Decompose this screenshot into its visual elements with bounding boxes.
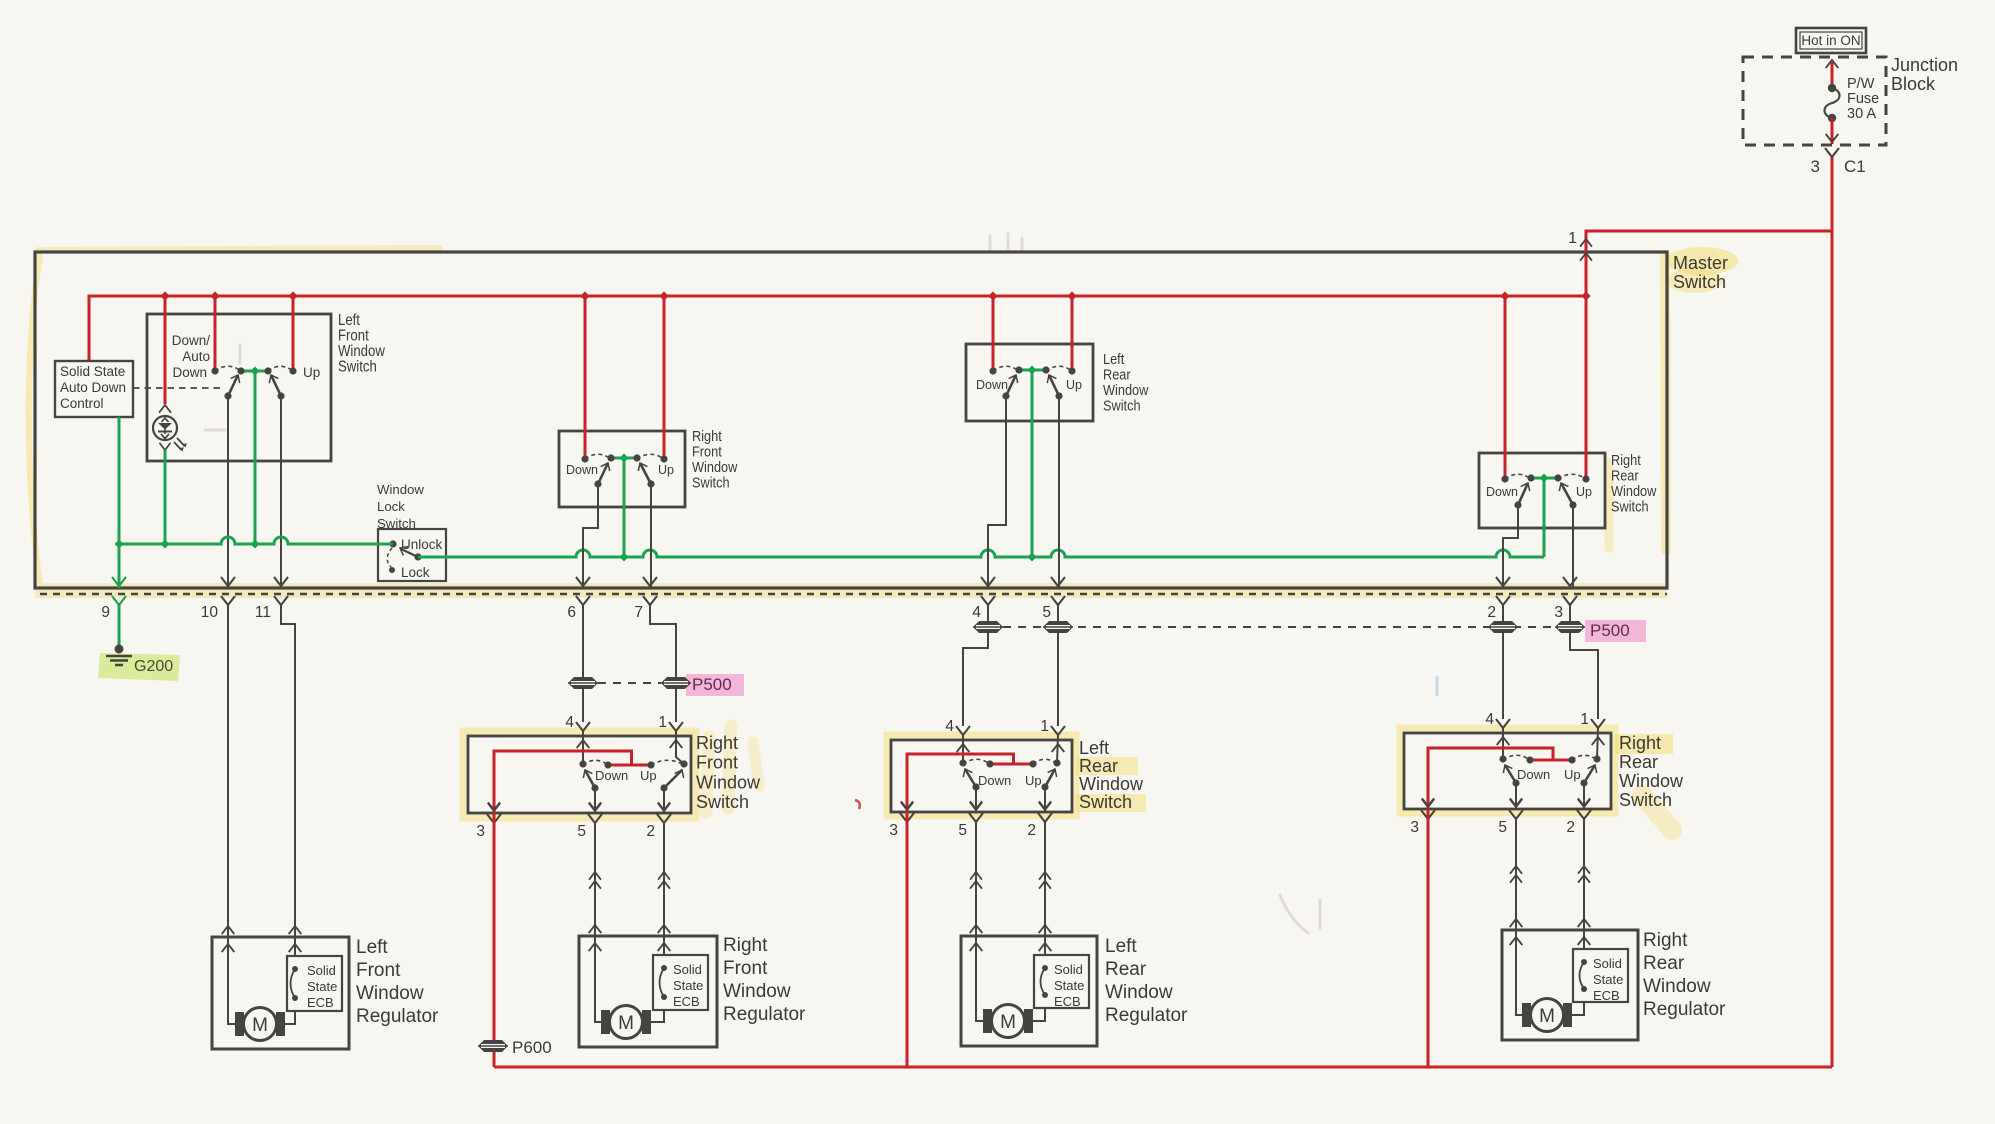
svg-text:Down: Down: [1486, 485, 1518, 499]
svg-text:Window: Window: [1105, 982, 1173, 1003]
red drop to left rear window switch S4 Up contact: [1068, 296, 1075, 375]
svg-text:3: 3: [1811, 157, 1820, 176]
red bottom feed bus: [494, 1066, 1832, 1069]
left rear window switch S4 dashed contact arcs: [993, 366, 1072, 371]
left rear window switch S4 green wire to ground bus: [1031, 370, 1034, 557]
door switch pin 2 connector: [1566, 799, 1591, 836]
svg-text:Hot in ON: Hot in ON: [1801, 33, 1860, 48]
right rear window switch S5 label: [1611, 452, 1656, 514]
wire switch pin 2 to regulator ECB (x=1045): [1039, 821, 1052, 955]
svg-text:Rear: Rear: [1643, 953, 1685, 974]
green ground bus (upper, to unlock contact): [115, 537, 394, 549]
right rear door switch S8 red feed from pin 3: [1422, 748, 1572, 809]
wire fuse to C1: [1826, 118, 1839, 144]
svg-text:Right: Right: [723, 935, 768, 956]
right front window switch S3 box: [559, 431, 685, 507]
left rear door switch S7 wire pin4 to Down contact: [962, 735, 964, 763]
door switch pin 4 connector: [565, 714, 590, 748]
left front window regulator internal wiring: [228, 937, 295, 1024]
wire P500 to right front door switch pin 1: [675, 689, 677, 722]
door switch pin 2 connector: [646, 803, 671, 840]
svg-text:11: 11: [255, 604, 271, 621]
junction block label: [1891, 55, 1958, 94]
right rear door switch S8 lever down side: [1505, 765, 1516, 783]
left rear window switch S4 lever up side: [1049, 375, 1059, 396]
door switch pin 5 connector: [958, 802, 983, 839]
svg-text:Left: Left: [1105, 936, 1137, 957]
right front window switch S3 common contacts green link: [607, 454, 640, 463]
right front door switch S6 lever down side: [585, 770, 595, 788]
dashed contact arcs: [215, 366, 293, 371]
master switch pin 5 connector: [1042, 577, 1065, 621]
left rear window regulator internal wiring: [976, 936, 1045, 1021]
svg-text:3: 3: [1410, 819, 1419, 836]
door switch pin 3 connector: [476, 803, 501, 840]
svg-text:Master: Master: [1673, 253, 1728, 273]
svg-text:State: State: [1054, 978, 1084, 993]
lock switch lever: [398, 544, 422, 561]
right rear window switch S5 lever down side: [1518, 483, 1528, 505]
red wire right front pin 3 to P600 and bus: [493, 812, 496, 1067]
right rear window switch S5 box: [1479, 453, 1605, 528]
svg-text:Rear: Rear: [1103, 367, 1131, 383]
svg-text:Right: Right: [1611, 452, 1641, 468]
wire P500 to right rear door switch pin 4: [1502, 633, 1504, 719]
right rear window regulator solid state ECB: [1573, 949, 1628, 1003]
left rear door switch S7 wire lever to pin 5: [970, 787, 982, 812]
P500 connector (wire 5): [1043, 621, 1073, 633]
svg-text:1: 1: [658, 714, 667, 731]
red feed wire C1 down right side to bottom bus: [1831, 157, 1834, 1067]
svg-text:Front: Front: [692, 444, 722, 460]
svg-text:5: 5: [577, 823, 586, 840]
door switch pin 1 connector: [1580, 711, 1605, 745]
svg-text:Rear: Rear: [1079, 756, 1118, 776]
stray red scan mark: [855, 800, 860, 809]
svg-text:4: 4: [945, 718, 954, 735]
right front window switch S3 wire to pin 6: [583, 484, 598, 588]
svg-text:Switch: Switch: [1673, 272, 1726, 292]
wire pin 4 to P500: [987, 605, 989, 621]
svg-text:ECB: ECB: [1593, 988, 1620, 1003]
svg-text:Front: Front: [723, 958, 768, 979]
svg-text:Down: Down: [566, 463, 598, 477]
master switch pin 11 connector: [255, 577, 288, 621]
right front window switch S3 dashed contact arcs: [585, 454, 664, 459]
P500 connector (wire 3): [1555, 621, 1585, 633]
svg-text:5: 5: [958, 822, 967, 839]
switch common contacts and green link: [237, 367, 271, 376]
left front window regulator label: [356, 937, 439, 1027]
master switch pin 10 connector: [201, 577, 235, 621]
red drop to right rear window switch S5 Up contact: [1582, 296, 1589, 483]
svg-text:Solid: Solid: [1593, 956, 1622, 971]
master switch label: [1673, 253, 1728, 292]
lock contact: [389, 565, 430, 580]
wire switch pin 2 to regulator ECB (x=1584): [1578, 818, 1591, 949]
svg-text:Window: Window: [723, 981, 791, 1002]
svg-text:Rear: Rear: [1611, 468, 1639, 484]
dashed lever travel arc: [387, 548, 392, 567]
svg-text:Junction: Junction: [1891, 55, 1958, 75]
switch lever down side: [228, 375, 238, 396]
svg-text:Right: Right: [692, 428, 722, 444]
right rear window switch S5 lever up side: [1561, 483, 1573, 505]
svg-text:Down: Down: [976, 378, 1008, 392]
master switch pin 4 connector: [972, 577, 995, 621]
svg-text:M: M: [618, 1013, 634, 1034]
door switch pin 4 connector: [945, 718, 970, 752]
right front window switch S3 green wire to ground bus: [623, 458, 626, 557]
svg-text:M: M: [252, 1015, 268, 1036]
svg-text:P600: P600: [512, 1038, 552, 1057]
svg-text:4: 4: [1485, 711, 1494, 728]
left rear door switch S7 wire pin1 to Up side contact: [1057, 735, 1058, 763]
left rear door switch S7 box: [891, 740, 1072, 812]
right rear door switch S8 wire pin4 to Down contact: [1502, 728, 1504, 759]
door switch pin 1 connector: [658, 714, 683, 748]
left rear door switch S7 label: [1079, 738, 1144, 812]
Down/Auto Down label: [172, 333, 211, 380]
green wire switch common to ground bus: [254, 371, 257, 544]
door switch pin 3 connector: [1410, 799, 1435, 836]
wire P500 to right rear door switch pin 1: [1570, 633, 1598, 719]
svg-text:1: 1: [1568, 230, 1577, 247]
svg-text:2: 2: [1566, 819, 1575, 836]
svg-text:ECB: ECB: [307, 995, 334, 1010]
right front door switch S6 red feed from pin 3: [488, 751, 651, 813]
wire pin 3 to P500: [1569, 605, 1571, 621]
svg-text:Regulator: Regulator: [723, 1004, 806, 1025]
left rear window switch S4 label: [1103, 351, 1148, 413]
right front window switch S3 lever up side: [640, 463, 651, 484]
svg-text:30 A: 30 A: [1847, 106, 1876, 122]
left front window switch S1 box: [147, 314, 331, 461]
left rear door switch S7 contacts: [959, 759, 1060, 767]
svg-text:Switch: Switch: [338, 359, 377, 376]
right front door switch S6 wire lever to pin 5: [589, 788, 601, 813]
fuse feed wire from Hot in ON: [1826, 60, 1839, 87]
svg-text:Right: Right: [1619, 733, 1661, 753]
right rear window switch S5 wire to pin 3: [1572, 505, 1574, 588]
green wire LED to ground bus: [164, 450, 167, 544]
svg-text:G200: G200: [134, 658, 173, 675]
svg-text:Solid: Solid: [673, 962, 702, 977]
svg-text:Window: Window: [356, 983, 424, 1004]
indicator LED D1: [153, 416, 187, 452]
right front window switch S3 wire to pin 7: [650, 484, 652, 588]
right rear window regulator box: [1502, 930, 1638, 1040]
svg-text:Switch: Switch: [1103, 398, 1141, 414]
svg-text:P500: P500: [692, 675, 732, 694]
junction block dashed box: [1743, 57, 1886, 145]
svg-text:Solid: Solid: [307, 963, 336, 978]
Hot in ON box: [1796, 28, 1866, 53]
red supply bus inside master switch: [89, 291, 1591, 361]
door switch pin 5 connector: [577, 803, 602, 840]
connector P600: [478, 1038, 552, 1057]
svg-text:State: State: [307, 979, 337, 994]
right front door switch S6 lever up side: [664, 770, 682, 788]
svg-text:3: 3: [889, 822, 898, 839]
right rear door switch S8 label: [1619, 733, 1684, 810]
svg-text:M: M: [1539, 1006, 1555, 1027]
svg-text:Auto: Auto: [182, 349, 210, 364]
svg-text:P/W: P/W: [1847, 76, 1875, 92]
svg-text:10: 10: [201, 604, 219, 621]
svg-text:Window: Window: [1619, 771, 1684, 791]
svg-text:Left: Left: [1103, 351, 1124, 367]
svg-text:Up: Up: [1576, 485, 1592, 499]
left rear window switch S4 box: [966, 344, 1093, 421]
svg-text:Regulator: Regulator: [1105, 1005, 1188, 1026]
right rear door switch S8 wire pin1 to Up side contact: [1597, 728, 1598, 759]
svg-text:1: 1: [1040, 718, 1049, 735]
svg-text:P500: P500: [1590, 621, 1630, 640]
svg-text:ECB: ECB: [673, 994, 700, 1009]
svg-text:7: 7: [634, 604, 643, 621]
dashed control link to left front switch lever: [133, 387, 225, 389]
P500 connector (wire 6): [568, 677, 598, 689]
solid state auto down control U1: [55, 361, 133, 417]
red drop to right front window switch S3 Down contact: [581, 296, 588, 463]
master switch pin 1 wire to C1 feed: [1568, 230, 1832, 296]
svg-text:Left: Left: [1079, 738, 1109, 758]
P500 dashed link 6-7: [598, 682, 661, 684]
svg-text:3: 3: [1554, 604, 1563, 621]
svg-text:M: M: [1000, 1012, 1016, 1033]
svg-text:Switch: Switch: [696, 792, 749, 812]
svg-text:Down: Down: [1517, 767, 1550, 782]
right rear window regulator internal wiring: [1516, 930, 1584, 1015]
wire pin 11 to left front regulator: [281, 605, 301, 956]
svg-text:2: 2: [646, 823, 655, 840]
right front window switch S3 label: [692, 428, 737, 490]
right rear window regulator motor M: [1522, 999, 1572, 1032]
switch lever up side: [271, 375, 281, 396]
fuse F1 P/W Fuse 30 A: [1825, 76, 1880, 122]
svg-text:Window: Window: [1079, 774, 1144, 794]
master switch pin 6 connector: [567, 577, 590, 621]
master switch pin 7 connector: [634, 577, 657, 621]
svg-text:Window: Window: [696, 772, 761, 792]
right front door switch S6 box: [468, 736, 691, 813]
right rear door switch S8 box: [1404, 733, 1611, 809]
wire pin 7 to P500: [650, 605, 676, 677]
red drop to LED: [159, 296, 171, 413]
wire P500 to right front door switch pin 4: [582, 689, 584, 722]
right rear door switch S8 wire lever to pin 2: [1578, 783, 1590, 809]
svg-text:1: 1: [1580, 711, 1589, 728]
svg-text:Block: Block: [1891, 74, 1936, 94]
svg-text:Control: Control: [60, 396, 104, 411]
unlock contact: [389, 537, 442, 552]
right front door switch S6 contacts: [579, 760, 687, 768]
master switch pin 3 connector: [1554, 577, 1577, 621]
right rear door switch S8 contacts: [1499, 755, 1600, 763]
svg-text:Up: Up: [1025, 773, 1042, 788]
svg-text:Rear: Rear: [1105, 959, 1147, 980]
red wire right rear pin 3 to bus: [1427, 808, 1430, 1067]
svg-text:Front: Front: [696, 753, 738, 773]
door switch pin 1 connector: [1040, 718, 1065, 752]
left rear window regulator label: [1105, 936, 1188, 1026]
door switch pin 2 connector: [1027, 802, 1052, 839]
svg-text:Up: Up: [1066, 378, 1082, 392]
svg-text:Switch: Switch: [692, 475, 730, 491]
svg-text:Left: Left: [356, 937, 388, 958]
svg-text:Switch: Switch: [1611, 499, 1649, 515]
ground G200: [106, 645, 173, 676]
wire P500 to left rear door switch pin 1: [1057, 633, 1059, 726]
right front door switch S6 wire pin4 to Down contact: [582, 731, 584, 764]
highlighter marks (scan): [29, 234, 1738, 933]
svg-text:Up: Up: [1564, 767, 1581, 782]
wire switch pin 5 to regulator (x=1516): [1510, 818, 1523, 945]
svg-text:5: 5: [1042, 604, 1051, 621]
right front door switch S6 label: [696, 733, 761, 812]
svg-text:Up: Up: [658, 463, 674, 477]
svg-text:Down: Down: [595, 768, 628, 783]
right rear door switch S8 dashed contact arcs: [1503, 755, 1597, 760]
green wire pin 9 to ground: [118, 605, 121, 646]
svg-text:Regulator: Regulator: [1643, 999, 1726, 1020]
master switch pin 9 connector: [101, 577, 126, 621]
window lock switch S2 box: [378, 529, 446, 581]
left rear door switch S7 red feed from pin 3: [901, 754, 1033, 812]
right front window regulator label: [723, 935, 806, 1025]
right front window regulator motor M: [601, 1006, 651, 1039]
svg-text:Up: Up: [303, 365, 320, 380]
svg-text:Switch: Switch: [1619, 790, 1672, 810]
svg-text:Down/: Down/: [172, 333, 211, 348]
wire switch pin 5 to regulator (x=976): [970, 821, 983, 951]
svg-text:Solid: Solid: [1054, 962, 1083, 977]
master switch box: [35, 252, 1667, 588]
left rear door switch S7 dashed contact arcs: [963, 759, 1057, 764]
left rear window switch S4 lever down side: [1006, 375, 1016, 396]
svg-text:3: 3: [476, 823, 485, 840]
left rear window regulator box: [961, 936, 1097, 1046]
svg-text:State: State: [1593, 972, 1623, 987]
wire switch pin 2 to regulator ECB (x=664): [658, 824, 671, 955]
svg-text:Regulator: Regulator: [356, 1006, 439, 1027]
svg-text:Unlock: Unlock: [401, 537, 443, 552]
svg-text:Window: Window: [1103, 382, 1148, 398]
right rear door switch S8 lever up side: [1584, 765, 1595, 783]
svg-text:Up: Up: [640, 768, 657, 783]
left rear window switch S4 wire to pin 4: [988, 396, 1006, 588]
red drop to right front window switch S3 Up contact: [660, 296, 667, 463]
wire pin 6 to P500: [582, 605, 584, 677]
left rear door switch S7 wire lever to pin 2: [1039, 787, 1051, 812]
right rear window switch S5 green wire to ground bus: [1543, 478, 1546, 557]
svg-text:Lock: Lock: [377, 499, 405, 514]
left rear window switch S4 wire to pin 5: [1058, 396, 1060, 588]
svg-text:5: 5: [1498, 819, 1507, 836]
right rear window switch S5 dashed contact arcs: [1505, 474, 1586, 479]
svg-text:Window: Window: [1643, 976, 1711, 997]
svg-text:2: 2: [1487, 604, 1496, 621]
svg-text:Rear: Rear: [1619, 752, 1658, 772]
left front window regulator motor M: [235, 1008, 285, 1041]
right rear window switch S5 wire to pin 2: [1503, 505, 1518, 588]
red wire left rear pin 3 to bus: [906, 811, 909, 1067]
svg-text:4: 4: [972, 604, 981, 621]
door switch pin 4 connector: [1485, 711, 1510, 745]
svg-text:Front: Front: [356, 960, 401, 981]
svg-text:Window: Window: [1611, 483, 1656, 499]
P500 connector (wire 2): [1488, 621, 1518, 633]
left front window switch label: [338, 312, 385, 376]
right front window switch S3 lever down side: [598, 463, 608, 484]
right front window regulator solid state ECB: [653, 955, 708, 1010]
master switch pin 2 connector: [1487, 577, 1510, 621]
left rear door switch S7 lever up side: [1045, 769, 1055, 787]
P500 connector (wire 4): [973, 621, 1003, 633]
right front door switch S6 dashed contact arcs: [583, 760, 684, 765]
stray blue scan mark: [1436, 676, 1439, 696]
svg-text:Window: Window: [692, 459, 737, 475]
right front door switch S6 wire lever to pin 2: [658, 788, 670, 813]
right front window regulator internal wiring: [595, 936, 664, 1022]
svg-text:9: 9: [101, 604, 110, 621]
wire lever to pin 11: [280, 396, 282, 588]
svg-text:Right: Right: [1643, 930, 1688, 951]
left rear window regulator motor M: [983, 1005, 1033, 1038]
svg-text:Switch: Switch: [1079, 792, 1132, 812]
svg-text:4: 4: [565, 714, 574, 731]
right rear door switch S8 wire lever to pin 5: [1510, 783, 1522, 809]
svg-text:Right: Right: [696, 733, 738, 753]
svg-text:State: State: [673, 978, 703, 993]
green wire solid state control to ground bus: [118, 417, 121, 588]
svg-text:Lock: Lock: [401, 565, 430, 580]
green ground bus (lower, from lock switch lever): [418, 550, 1544, 562]
svg-text:2: 2: [1027, 822, 1036, 839]
wire pin 5 to P500: [1057, 605, 1059, 621]
P500 dashed link rear: [1003, 626, 1555, 628]
svg-text:Fuse: Fuse: [1847, 91, 1879, 107]
left rear window regulator solid state ECB: [1034, 955, 1089, 1009]
wire pin 10 to left front regulator: [222, 605, 235, 952]
svg-text:C1: C1: [1844, 157, 1866, 176]
svg-text:Down: Down: [172, 365, 207, 380]
right front window regulator box: [579, 936, 717, 1047]
door switch pin 3 connector: [889, 802, 914, 839]
right rear window regulator label: [1643, 930, 1726, 1020]
right rear window switch S5 common contacts green link: [1527, 474, 1561, 483]
left rear window switch S4 common contacts green link: [1015, 366, 1049, 375]
svg-text:Down: Down: [978, 773, 1011, 788]
master switch connector dashed line: [40, 593, 1667, 595]
window lock switch label: [377, 482, 424, 531]
connector C1 pin 3: [1811, 148, 1866, 176]
red drop to Down contact: [211, 296, 218, 375]
left front window regulator box: [212, 937, 349, 1049]
P500 connector (wire 7): [661, 677, 691, 689]
svg-text:Window: Window: [377, 482, 424, 497]
red drop to Up contact: [289, 296, 296, 375]
svg-text:Solid State: Solid State: [60, 364, 125, 379]
left rear door switch S7 lever down side: [965, 769, 976, 787]
svg-text:ECB: ECB: [1054, 994, 1081, 1009]
right front door switch S6 wire pin1 to Up side contact: [676, 731, 684, 764]
red drop to right rear window switch S5 Down contact: [1501, 296, 1508, 483]
wire lever to pin 10: [227, 396, 229, 588]
wire switch pin 5 to regulator (x=595): [589, 824, 602, 951]
left front window regulator solid state ECB: [287, 956, 342, 1011]
